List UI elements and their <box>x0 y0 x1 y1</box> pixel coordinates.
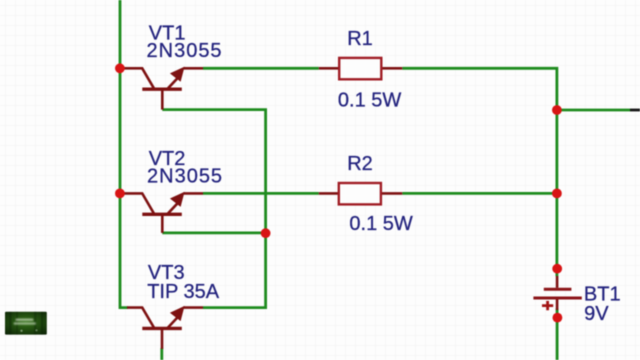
resistor R2 <box>319 183 403 204</box>
svg-text:0.1 5W: 0.1 5W <box>338 89 401 111</box>
wire R1 to right rail <box>402 68 557 276</box>
transistor VT3 arrow <box>170 306 185 321</box>
transistor VT2 arrow <box>170 192 185 207</box>
resistor R1 <box>319 58 403 79</box>
junction dot right rail output <box>552 105 562 115</box>
wire black stub at right edge <box>630 109 640 112</box>
transistor VT2 <box>119 193 203 233</box>
transistor VT1 <box>119 68 203 109</box>
wire VT1 collector net <box>162 110 265 308</box>
junction dot collector net <box>261 228 271 238</box>
svg-text:9V: 9V <box>584 303 609 325</box>
watermark logo bottom-left <box>5 312 47 335</box>
wire battery bottom <box>556 309 559 360</box>
junction dot VT2 base <box>115 189 125 199</box>
svg-text:0.1 5W: 0.1 5W <box>349 213 412 235</box>
battery BT1 <box>533 276 581 310</box>
wire right output <box>557 109 630 112</box>
junction dot battery bottom <box>553 313 563 323</box>
junction dot battery top <box>552 264 562 274</box>
wire VT3 collector bottom <box>160 348 163 360</box>
svg-text:2N3055: 2N3055 <box>147 40 223 62</box>
svg-text:2N3055: 2N3055 <box>147 166 223 188</box>
svg-text:R2: R2 <box>347 153 373 175</box>
svg-text:TIP 35A: TIP 35A <box>147 281 220 303</box>
transistor VT1 arrow <box>170 67 185 82</box>
wire R2 to right rail <box>402 192 557 195</box>
junction dot VT1 base <box>115 63 125 73</box>
wire VT1 emitter to R1 <box>203 67 319 70</box>
wire VT2 collector <box>162 231 265 234</box>
svg-text:R1: R1 <box>347 28 373 50</box>
wire left rail <box>120 0 128 308</box>
wire VT2 emitter to R2 <box>203 192 319 195</box>
transistor VT3 <box>127 308 203 349</box>
junction dot right rail R2 <box>552 189 562 199</box>
